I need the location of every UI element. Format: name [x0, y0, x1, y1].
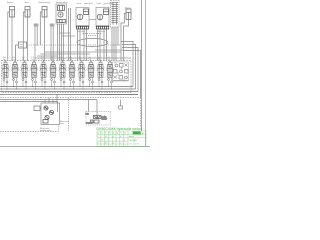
wire swivel 4 — [117, 27, 119, 46]
wire travelL 4 — [86, 29, 88, 61]
valve section 2 springs — [11, 68, 19, 71]
cylinder Bucket — [10, 7, 15, 18]
valve section 1 check valves — [3, 79, 8, 84]
svg-text:07: 07 — [105, 143, 107, 145]
valve section 7 solenoid cap — [61, 62, 64, 64]
pilot port pair 1 — [34, 24, 38, 61]
relief valve RV2 — [120, 64, 124, 68]
valve section 1 solenoid cap — [4, 62, 7, 64]
wire boom A — [121, 14, 126, 62]
svg-text:DX80CVMA hydraulic circuit: DX80CVMA hydraulic circuit — [97, 127, 143, 131]
valve section 9 solenoid cap — [80, 62, 83, 64]
dashed vertical right of pump — [68, 98, 70, 132]
valve section 5 port dot — [43, 61, 44, 62]
svg-text:no: no — [97, 132, 99, 134]
svg-text:Boom: Boom — [125, 7, 131, 9]
valve section 11 solenoid cap — [99, 62, 102, 64]
valve section 4 spool — [32, 65, 37, 78]
valve section 4 solenoid cap — [33, 62, 36, 64]
swing wire elbow 1 — [59, 32, 70, 34]
valve section 11 spool — [98, 65, 103, 78]
valve section 6 ports — [52, 61, 55, 90]
svg-text:Bucket: Bucket — [7, 1, 14, 4]
valve section 9 port dot — [81, 61, 82, 62]
wire travelL 1 — [77, 29, 79, 61]
valve section 5 springs — [40, 68, 48, 71]
horizontal band line 1 — [37, 55, 57, 57]
valve section 8 ports — [71, 61, 74, 90]
svg-text:05: 05 — [105, 136, 107, 138]
wire swing 4 — [63, 24, 65, 61]
wire swivel 1 — [111, 27, 113, 61]
valve section 12 springs — [106, 68, 114, 71]
svg-text:Pn1: Pn1 — [98, 57, 101, 59]
link line between travel motors — [89, 19, 96, 21]
tank labels — [86, 113, 108, 125]
valve section 2 ports — [14, 61, 17, 90]
valve section 3 spool — [22, 65, 27, 78]
wire swing 2 — [59, 24, 61, 61]
border frame bottom horizontal — [0, 146, 150, 148]
svg-text:Pn1: Pn1 — [22, 57, 25, 59]
relief valve RV6 — [125, 70, 129, 74]
wire travelR 1 — [97, 29, 99, 61]
svg-text:Travel: Travel — [76, 2, 82, 5]
valve section 2 spool — [13, 65, 18, 78]
pump aux box — [34, 106, 41, 111]
valve section 3 ports — [23, 61, 26, 90]
valve section 7 spool — [60, 65, 65, 78]
wire boomswing B — [44, 17, 46, 61]
travel motor RH assembly — [96, 8, 109, 30]
valve section 4 check valves — [32, 79, 37, 84]
svg-text:Boom swing: Boom swing — [39, 2, 51, 4]
wire bucket A — [8, 12, 10, 61]
svg-text:Pn1: Pn1 — [50, 57, 53, 59]
wire travelL 3 — [83, 29, 85, 61]
valve section 10 solenoid cap — [90, 62, 93, 64]
valve bank sections — [2, 57, 129, 89]
valve section 5 spool — [41, 65, 46, 78]
tank group — [86, 100, 111, 126]
svg-text:Pn1: Pn1 — [107, 57, 110, 59]
dashed link between travel motors — [83, 33, 103, 35]
svg-text:motor(LH): motor(LH) — [84, 2, 93, 5]
valve section 8 solenoid cap — [71, 62, 74, 64]
svg-text:ap: ap — [116, 132, 118, 134]
valve section 6 solenoid cap — [52, 62, 55, 64]
wire swivel 2 — [113, 27, 115, 61]
wire swing 1 — [57, 24, 59, 61]
wire travelL 2 — [79, 29, 81, 61]
valve section 3 check valves — [22, 79, 27, 84]
svg-text:dwg no: dwg no — [129, 136, 134, 138]
valve section 6 check valves — [51, 79, 56, 84]
svg-text:Pn1: Pn1 — [88, 57, 91, 59]
wire bucket B — [11, 17, 13, 61]
valve section 7 check valves — [60, 79, 65, 84]
relief valve RV8 — [119, 76, 123, 80]
valve section 12 solenoid cap — [109, 62, 112, 64]
cylinder Boom-swing — [42, 7, 47, 18]
wire travelR 3 — [103, 29, 105, 61]
svg-text:(tandem gear): (tandem gear) — [40, 129, 52, 132]
valve section 2 check valves — [13, 79, 18, 84]
horizontal band line 4 — [45, 51, 122, 53]
pump risers — [45, 95, 58, 113]
wire swing aux A — [68, 8, 70, 61]
valve section 7 springs — [59, 68, 67, 71]
valve section 12 port dot — [109, 61, 110, 62]
valve section 11 springs — [97, 68, 105, 71]
valve section 12 check valves — [108, 79, 113, 84]
svg-text:motor(RH): motor(RH) — [104, 2, 113, 5]
svg-text:6: 6 — [109, 139, 110, 141]
travel motor LH assembly — [76, 8, 89, 30]
relief valve RV5 — [120, 70, 123, 73]
svg-text:kd: kd — [101, 139, 103, 141]
wire travelR 2 — [99, 29, 101, 61]
svg-text:Pn1: Pn1 — [12, 57, 15, 59]
wire travelR 4 — [106, 29, 108, 61]
swing motor assembly — [56, 4, 67, 24]
valve section 10 springs — [87, 68, 95, 71]
valve section 5 check valves — [41, 79, 46, 84]
relief block gallery — [113, 62, 128, 81]
svg-text:cbal valve: cbal valve — [77, 31, 85, 33]
valve section 9 ports — [80, 61, 83, 90]
svg-text:Pn1: Pn1 — [79, 57, 82, 59]
valve section 5 solenoid cap — [42, 62, 45, 64]
valve section 7 port dot — [62, 61, 63, 62]
valve section 8 check valves — [70, 79, 75, 84]
valve section 9 spool — [79, 65, 84, 78]
valve section 9 check valves — [79, 79, 84, 84]
bus line 3 — [0, 91, 138, 93]
labels — [7, 1, 131, 132]
svg-text:js: js — [112, 143, 114, 145]
valve section 4 springs — [30, 68, 38, 71]
svg-text:ch: ch — [113, 132, 115, 134]
valve section 4 port dot — [33, 61, 34, 62]
svg-text:js: js — [112, 136, 114, 138]
valve section 1 port dot — [5, 61, 6, 62]
dashed vertical pump corner — [58, 124, 60, 132]
valve section 10 check valves — [89, 79, 94, 84]
svg-text:cbal valve: cbal valve — [97, 31, 105, 33]
svg-text:Pn1: Pn1 — [3, 57, 6, 59]
dashed bottom line left — [0, 131, 58, 133]
valve section 5 ports — [42, 61, 45, 90]
green table texts — [97, 131, 144, 145]
valve section 2 solenoid cap — [14, 62, 17, 64]
swing wire elbow 2 — [62, 35, 76, 37]
valve section 9 springs — [78, 68, 86, 71]
svg-text:Arm: Arm — [25, 1, 29, 4]
dashed bus line — [0, 97, 141, 99]
dashed LS line — [27, 44, 121, 46]
wire arm A — [23, 12, 25, 61]
pump assembly — [41, 103, 60, 125]
svg-text:HYD80-C: HYD80-C — [130, 140, 139, 142]
relief valve RV7 — [114, 76, 118, 79]
svg-text:Pn1: Pn1 — [60, 57, 63, 59]
valve section 10 spool — [89, 65, 94, 78]
wire boom B — [124, 20, 129, 62]
wire long right vertical — [141, 0, 143, 131]
border frame right vertical — [145, 0, 147, 147]
wire arm B — [27, 17, 29, 61]
relief valve RV3 — [125, 64, 128, 67]
title block table — [97, 131, 146, 146]
bus junction dots — [3, 86, 112, 90]
valve section 8 spool — [70, 65, 75, 78]
valve section 6 port dot — [52, 61, 53, 62]
horizontal band line 2 — [40, 53, 90, 55]
wire boomswing A — [40, 12, 42, 46]
horizontal band line 3 — [35, 57, 131, 59]
valve section 1 ports — [4, 61, 7, 90]
valve section 1 spool — [3, 65, 8, 78]
svg-text:Pn1: Pn1 — [69, 57, 72, 59]
svg-text:Pn1: Pn1 — [41, 57, 44, 59]
relief valve RV1 — [115, 64, 118, 67]
hose loop ellipse — [77, 39, 108, 47]
wire swing 3 — [61, 24, 63, 61]
valve section 2 port dot — [14, 61, 15, 62]
LS valve box — [16, 42, 27, 61]
svg-text:Pn1: Pn1 — [31, 57, 34, 59]
valve section 10 ports — [90, 61, 93, 90]
cylinder Arm — [25, 7, 30, 18]
relief valve RV4 — [114, 70, 118, 74]
supply line 2 — [0, 101, 58, 103]
green logo fill — [133, 131, 141, 134]
valve section 12 ports — [109, 61, 112, 90]
valve section 3 springs — [21, 68, 29, 71]
relief valve RV9 — [125, 76, 128, 79]
swivel joint — [111, 1, 120, 28]
valve section 11 ports — [99, 61, 102, 90]
right side nested wires — [100, 42, 141, 98]
svg-text:Travel: Travel — [96, 2, 102, 5]
valve section 12 spool — [108, 65, 113, 78]
dashed link 2 — [88, 35, 97, 37]
bus line 2 — [0, 88, 136, 90]
svg-text:Swing motor: Swing motor — [56, 1, 68, 4]
valve section 7 ports — [61, 61, 64, 90]
svg-text:valve: valve — [20, 46, 24, 48]
svg-text:assy: assy — [60, 123, 64, 125]
pilot port pair 2 — [50, 24, 54, 61]
bus line 4 — [0, 94, 138, 96]
valve section 11 port dot — [100, 61, 101, 62]
valve section 3 port dot — [24, 61, 25, 62]
cylinder Boom — [126, 9, 131, 20]
valve section 1 springs — [2, 68, 10, 71]
valve section 11 check valves — [98, 79, 103, 84]
valve section 6 spool — [51, 65, 56, 78]
return riser with tank — [119, 100, 123, 110]
supply line 1 — [0, 99, 97, 101]
valve section 3 solenoid cap — [23, 62, 26, 64]
svg-text:sc 1/1: sc 1/1 — [135, 144, 139, 146]
valve section 8 port dot — [71, 61, 72, 62]
valve section 6 springs — [49, 68, 57, 71]
wire swing aux B — [70, 8, 72, 61]
relief block boundary — [113, 62, 129, 81]
valve section 8 springs — [68, 68, 76, 71]
valve section 4 ports — [33, 61, 36, 90]
main control valve dashed boundary — [2, 61, 132, 93]
bus line 1 — [0, 86, 133, 88]
valve section 10 port dot — [90, 61, 91, 62]
wire swivel 3 — [115, 27, 117, 61]
